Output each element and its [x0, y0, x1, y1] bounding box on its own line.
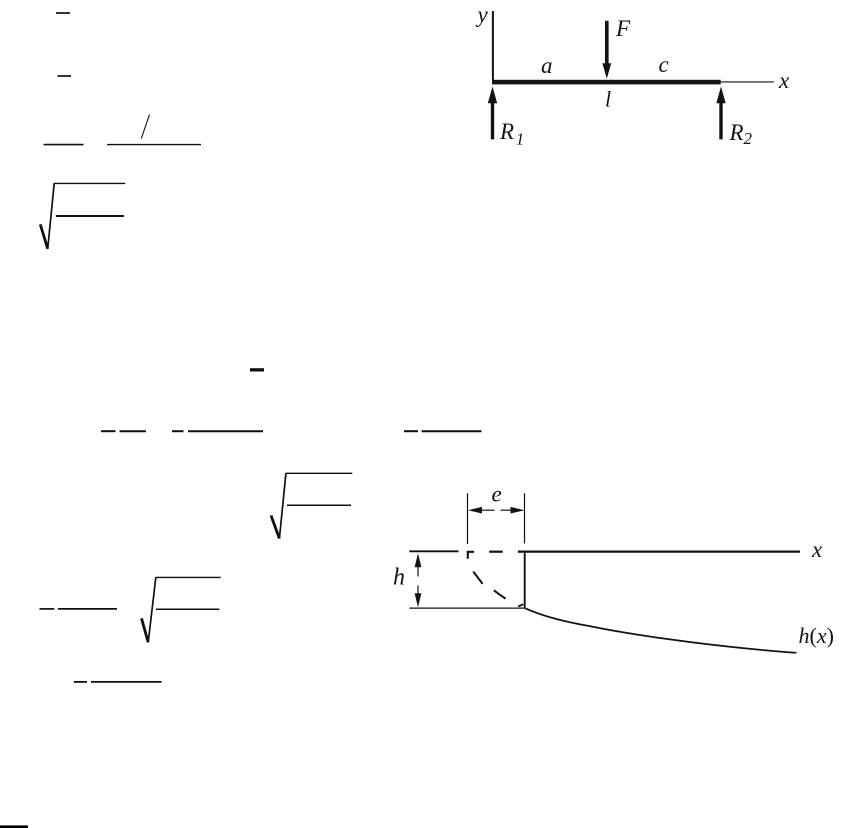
- svg-text:a: a: [541, 53, 553, 78]
- svg-text:2: 2: [744, 129, 753, 148]
- svg-text:F: F: [615, 16, 631, 41]
- svg-text:l: l: [605, 86, 611, 111]
- svg-text:y: y: [476, 2, 489, 27]
- svg-text:c: c: [659, 52, 669, 77]
- svg-text:x: x: [811, 537, 823, 562]
- svg-text:h: h: [393, 564, 405, 590]
- svg-text:h(x): h(x): [799, 623, 834, 648]
- svg-text:e: e: [492, 481, 502, 506]
- svg-text:x: x: [778, 68, 790, 93]
- svg-text:R: R: [729, 120, 744, 145]
- svg-text:R: R: [499, 119, 514, 144]
- svg-text:1: 1: [516, 130, 525, 149]
